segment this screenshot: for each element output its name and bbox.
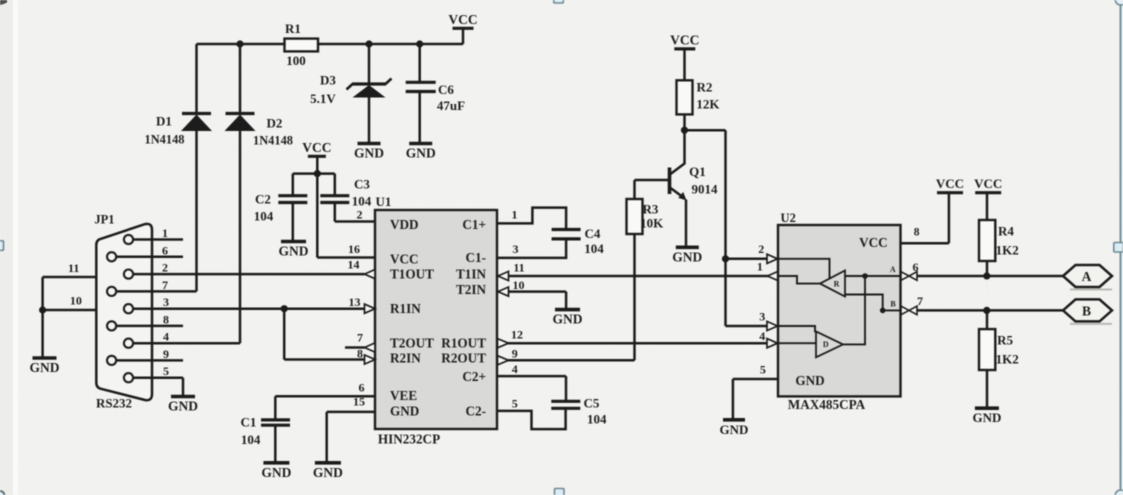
svg-text:VCC: VCC bbox=[859, 235, 888, 250]
svg-text:10: 10 bbox=[70, 294, 82, 308]
svg-text:5: 5 bbox=[512, 397, 518, 411]
svg-text:1: 1 bbox=[757, 259, 763, 273]
svg-text:C1-: C1- bbox=[465, 250, 486, 265]
svg-text:12: 12 bbox=[511, 328, 523, 342]
svg-text:C1: C1 bbox=[241, 415, 257, 430]
svg-text:2: 2 bbox=[758, 242, 764, 256]
svg-text:1: 1 bbox=[512, 208, 518, 222]
svg-text:T1IN: T1IN bbox=[456, 266, 487, 281]
svg-text:C2+: C2+ bbox=[462, 369, 486, 384]
svg-text:GND: GND bbox=[30, 360, 60, 375]
svg-text:4: 4 bbox=[759, 329, 765, 343]
svg-text:13: 13 bbox=[349, 295, 361, 309]
svg-text:B: B bbox=[890, 299, 896, 308]
svg-text:A: A bbox=[1082, 269, 1092, 284]
svg-text:C4: C4 bbox=[585, 226, 601, 241]
svg-text:R2OUT: R2OUT bbox=[441, 350, 486, 365]
svg-text:3: 3 bbox=[759, 309, 765, 323]
svg-text:GND: GND bbox=[390, 404, 419, 419]
svg-text:C6: C6 bbox=[438, 82, 454, 97]
svg-text:R1OUT: R1OUT bbox=[441, 336, 486, 351]
svg-text:6: 6 bbox=[162, 243, 168, 257]
svg-text:C1+: C1+ bbox=[462, 217, 486, 232]
svg-text:7: 7 bbox=[917, 294, 923, 308]
svg-text:1K2: 1K2 bbox=[996, 243, 1019, 258]
svg-text:U2: U2 bbox=[781, 211, 796, 225]
svg-text:VCC: VCC bbox=[936, 176, 964, 191]
svg-text:5: 5 bbox=[760, 363, 766, 377]
svg-text:T1OUT: T1OUT bbox=[390, 266, 434, 281]
svg-text:104: 104 bbox=[241, 432, 261, 447]
svg-text:C2: C2 bbox=[255, 192, 271, 207]
svg-text:1K2: 1K2 bbox=[996, 352, 1019, 367]
svg-text:GND: GND bbox=[279, 244, 309, 259]
svg-text:12K: 12K bbox=[696, 96, 720, 111]
svg-text:GND: GND bbox=[261, 465, 291, 480]
svg-text:1N4148: 1N4148 bbox=[253, 134, 293, 148]
svg-text:GND: GND bbox=[354, 146, 384, 161]
svg-text:104: 104 bbox=[352, 193, 372, 208]
svg-text:R4: R4 bbox=[998, 223, 1014, 238]
svg-text:47uF: 47uF bbox=[437, 98, 465, 113]
svg-text:6: 6 bbox=[359, 381, 365, 395]
svg-text:GND: GND bbox=[795, 373, 824, 388]
svg-text:16: 16 bbox=[348, 242, 360, 256]
svg-text:B: B bbox=[1082, 303, 1091, 318]
svg-text:3: 3 bbox=[513, 242, 519, 256]
svg-text:D2: D2 bbox=[267, 116, 283, 131]
svg-text:7: 7 bbox=[162, 278, 168, 292]
svg-text:JP1: JP1 bbox=[94, 213, 114, 227]
svg-text:104: 104 bbox=[587, 412, 607, 427]
svg-text:R1: R1 bbox=[285, 21, 301, 36]
svg-text:VCC: VCC bbox=[302, 140, 331, 155]
svg-text:Q1: Q1 bbox=[689, 164, 706, 179]
svg-text:4: 4 bbox=[163, 330, 169, 344]
svg-text:3: 3 bbox=[163, 295, 169, 309]
svg-text:C2-: C2- bbox=[465, 404, 486, 419]
svg-text:VCC: VCC bbox=[670, 32, 699, 47]
svg-text:10K: 10K bbox=[640, 215, 664, 230]
svg-text:9: 9 bbox=[163, 347, 169, 361]
svg-text:8: 8 bbox=[914, 227, 920, 239]
svg-text:8: 8 bbox=[163, 312, 169, 326]
svg-text:A: A bbox=[890, 265, 896, 274]
svg-text:GND: GND bbox=[168, 399, 198, 414]
svg-text:9014: 9014 bbox=[692, 182, 719, 197]
svg-text:GND: GND bbox=[720, 422, 749, 437]
svg-text:U1: U1 bbox=[376, 194, 392, 209]
svg-text:R1IN: R1IN bbox=[390, 301, 421, 316]
svg-text:D1: D1 bbox=[156, 114, 172, 129]
svg-text:T2IN: T2IN bbox=[456, 282, 487, 297]
svg-text:D3: D3 bbox=[320, 73, 336, 88]
svg-text:6: 6 bbox=[913, 260, 919, 274]
svg-text:104: 104 bbox=[584, 241, 604, 256]
svg-text:T2OUT: T2OUT bbox=[390, 336, 434, 351]
svg-text:RS232: RS232 bbox=[96, 396, 132, 411]
svg-text:9: 9 bbox=[512, 346, 518, 360]
svg-text:VEE: VEE bbox=[390, 388, 417, 403]
svg-text:GND: GND bbox=[313, 465, 343, 480]
svg-text:2: 2 bbox=[162, 261, 168, 275]
svg-text:MAX485CPA: MAX485CPA bbox=[788, 397, 866, 412]
svg-text:GND: GND bbox=[972, 410, 1001, 425]
svg-text:R3: R3 bbox=[643, 202, 659, 217]
svg-text:GND: GND bbox=[406, 146, 436, 161]
svg-text:5: 5 bbox=[163, 364, 169, 378]
svg-text:R5: R5 bbox=[997, 333, 1013, 348]
svg-text:104: 104 bbox=[254, 209, 274, 224]
svg-text:VDD: VDD bbox=[390, 217, 419, 232]
svg-text:1N4148: 1N4148 bbox=[145, 133, 185, 147]
svg-text:11: 11 bbox=[513, 260, 524, 274]
svg-text:2: 2 bbox=[357, 207, 363, 221]
svg-text:5.1V: 5.1V bbox=[310, 91, 336, 106]
svg-text:10: 10 bbox=[513, 278, 525, 292]
svg-text:14: 14 bbox=[348, 257, 360, 271]
svg-text:GND: GND bbox=[553, 312, 583, 327]
svg-text:C3: C3 bbox=[354, 177, 370, 192]
svg-text:GND: GND bbox=[672, 249, 702, 264]
svg-text:C5: C5 bbox=[583, 396, 599, 411]
svg-text:R: R bbox=[834, 280, 840, 289]
svg-text:R2: R2 bbox=[696, 79, 712, 94]
svg-text:7: 7 bbox=[357, 331, 363, 345]
svg-text:HIN232CP: HIN232CP bbox=[378, 431, 440, 446]
svg-text:VCC: VCC bbox=[974, 176, 1002, 191]
svg-text:1: 1 bbox=[162, 226, 168, 240]
svg-text:100: 100 bbox=[286, 53, 306, 68]
svg-text:D: D bbox=[823, 340, 829, 349]
svg-text:11: 11 bbox=[68, 261, 79, 275]
svg-text:VCC: VCC bbox=[448, 12, 477, 27]
svg-text:4: 4 bbox=[512, 362, 518, 376]
svg-text:VCC: VCC bbox=[390, 252, 419, 267]
svg-text:R2IN: R2IN bbox=[390, 350, 421, 365]
